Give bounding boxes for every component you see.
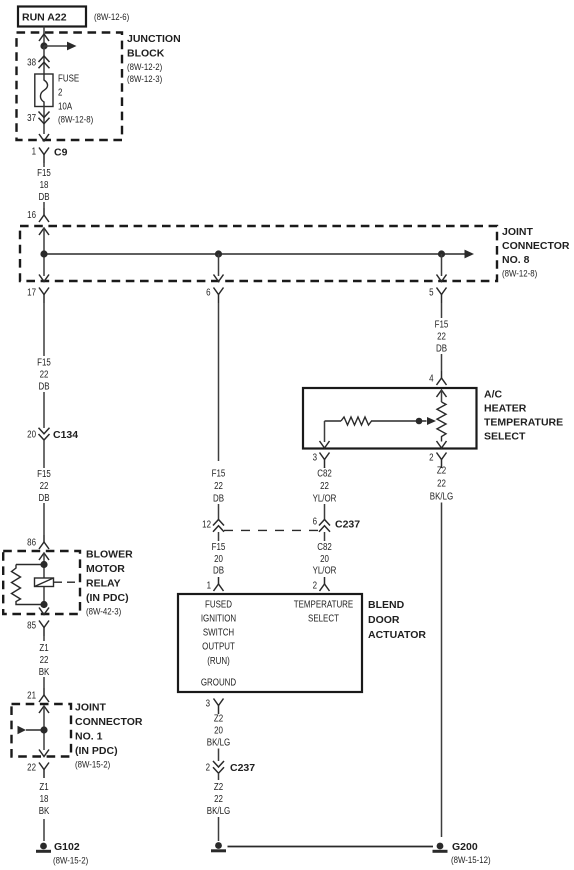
svg-text:BLOWER: BLOWER [86,549,133,561]
svg-text:2: 2 [429,452,433,463]
svg-text:6: 6 [313,516,317,527]
wire right leg [441,254,443,276]
blower motor relay dashed box [3,551,80,614]
arrow into joint connector no 1 [39,706,49,713]
wire Z2 22 BK/LG [218,773,220,780]
node: bus junction left [40,250,47,257]
svg-text:OUTPUT: OUTPUT [202,641,235,652]
svg-text:(8W-12-6): (8W-12-6) [94,11,129,22]
potentiometer resistor element [441,390,443,402]
svg-text:G200: G200 [452,841,478,853]
svg-text:BK: BK [39,666,50,677]
node: bus junction middle [215,250,222,257]
svg-text:C134: C134 [53,429,78,441]
svg-text:85: 85 [27,620,36,631]
relay contact [35,578,54,587]
svg-text:NO. 8: NO. 8 [502,254,530,266]
svg-text:22: 22 [40,369,49,380]
arrow into a/c box [437,390,447,397]
arrow into joint connector no 8 [39,228,49,235]
wiper wire to pin 3 [324,421,326,442]
svg-text:21: 21 [27,690,36,701]
dashed wire C237 link [224,529,319,531]
wire branch to other circuits [26,729,44,731]
svg-text:20: 20 [27,429,36,440]
svg-text:Z1: Z1 [39,642,48,653]
arrow out of junction block [39,134,49,141]
svg-text:F15: F15 [212,541,226,552]
svg-text:20: 20 [320,553,329,564]
svg-text:22: 22 [320,480,329,491]
svg-text:(8W-42-3): (8W-42-3) [86,606,121,617]
wire Z1 22 BK [43,636,45,641]
svg-text:MOTOR: MOTOR [86,563,125,575]
connector C237 pin 12 [213,520,224,526]
svg-text:10A: 10A [58,101,72,112]
svg-text:BK: BK [39,805,50,816]
wire below fuse [43,107,45,135]
svg-text:GROUND: GROUND [201,677,236,688]
relay coil branch [16,564,44,566]
svg-text:3: 3 [206,698,210,709]
wire to fuse [43,46,45,74]
svg-text:(RUN): (RUN) [207,655,230,666]
svg-text:2: 2 [313,580,317,591]
svg-text:(8W-12-2): (8W-12-2) [127,61,162,72]
svg-text:Z2: Z2 [214,781,223,792]
svg-text:YL/OR: YL/OR [313,493,337,504]
svg-text:ACTUATOR: ACTUATOR [368,629,426,641]
wire F15 20 DB [218,532,220,541]
svg-text:Z2: Z2 [214,713,223,724]
svg-text:(IN PDC): (IN PDC) [75,745,118,757]
svg-text:BK/LG: BK/LG [430,491,454,502]
node: bus junction right [438,250,445,257]
svg-text:CONNECTOR: CONNECTOR [75,716,143,728]
ground link wire [228,846,434,848]
svg-text:BLOCK: BLOCK [127,48,165,60]
svg-text:12: 12 [202,519,211,530]
wire inside joint connector no 1 [43,706,45,750]
relay main wire [43,553,45,608]
svg-text:18: 18 [40,179,49,190]
fuse 2 10A [35,74,53,107]
svg-text:F15: F15 [37,357,51,368]
svg-text:DB: DB [436,343,447,354]
svg-text:(8W-15-2): (8W-15-2) [75,759,110,770]
svg-text:2: 2 [206,762,210,773]
connector C237 pin 2 bottom [213,761,224,767]
svg-text:RUN A22: RUN A22 [22,12,67,24]
svg-text:Z2: Z2 [437,465,446,476]
svg-text:IGNITION: IGNITION [201,613,236,624]
svg-text:16: 16 [27,209,36,220]
svg-text:4: 4 [429,373,433,384]
svg-text:C82: C82 [317,541,332,552]
svg-text:TEMPERATURE: TEMPERATURE [484,417,563,429]
wire middle leg [218,254,220,276]
svg-text:JUNCTION: JUNCTION [127,33,181,45]
arrow out of relay [39,608,49,615]
arrow out of a/c box left [320,441,330,448]
svg-text:5: 5 [429,287,433,298]
ground G102 [40,843,47,850]
svg-text:22: 22 [27,762,36,773]
svg-text:FUSED: FUSED [205,599,232,610]
svg-text:22: 22 [214,793,223,804]
wire from RUN A22 into junction block [43,27,45,47]
svg-text:37: 37 [27,112,36,123]
svg-text:HEATER: HEATER [484,403,527,415]
svg-text:JOINT: JOINT [502,226,534,238]
svg-text:DB: DB [38,492,49,503]
svg-text:BLEND: BLEND [368,599,405,611]
arrow out of joint connector no 1 [39,750,49,757]
svg-text:SELECT: SELECT [484,431,526,443]
wire node 6 to C237 [218,303,220,461]
svg-text:(8W-12-8): (8W-12-8) [502,268,537,279]
svg-text:2: 2 [58,87,62,98]
svg-text:A/C: A/C [484,389,503,401]
node: relay top junction [40,561,47,568]
svg-text:22: 22 [40,480,49,491]
svg-text:F15: F15 [212,468,226,479]
connector chevrons pin 37 [39,112,50,118]
svg-text:(8W-12-3): (8W-12-3) [127,73,162,84]
svg-text:RELAY: RELAY [86,578,121,590]
svg-text:BK/LG: BK/LG [207,805,231,816]
svg-text:F15: F15 [37,468,51,479]
wire F15 22 DB upper [43,303,45,356]
joint connector no 1 dashed box [12,704,72,757]
bus wire joint connector no 8 [44,253,465,255]
node: junction dot [40,42,47,49]
svg-text:DB: DB [38,191,49,202]
wire branch to other circuits [44,45,68,47]
svg-text:38: 38 [27,57,36,68]
svg-text:22: 22 [437,331,446,342]
svg-text:SWITCH: SWITCH [203,627,234,638]
svg-text:C82: C82 [317,468,332,479]
arrow into junction block [39,34,49,41]
svg-text:F15: F15 [435,319,449,330]
wire C82 22 YL/OR [324,467,326,470]
joint connector no 8 dashed box [20,226,497,281]
svg-text:1: 1 [207,580,211,591]
arrow out of a/c box right [437,441,447,448]
svg-text:C9: C9 [54,147,68,159]
arrow out right pin 5 [437,275,447,282]
svg-text:17: 17 [27,287,36,298]
svg-text:DOOR: DOOR [368,614,400,626]
svg-text:DB: DB [213,565,224,576]
svg-text:DB: DB [38,381,49,392]
svg-text:JOINT: JOINT [75,702,107,714]
ground middle [215,842,222,849]
svg-text:F15: F15 [37,167,51,178]
svg-text:YL/OR: YL/OR [313,565,337,576]
svg-text:22: 22 [40,654,49,665]
svg-text:NO. 1: NO. 1 [75,731,103,743]
arrow out middle pin 6 [214,275,224,282]
svg-text:G102: G102 [54,841,80,853]
svg-text:20: 20 [214,553,223,564]
connector C237 pin 6 [319,520,330,526]
blend door actuator box [178,594,362,692]
svg-text:TEMPERATURE: TEMPERATURE [294,599,354,610]
svg-text:(IN PDC): (IN PDC) [86,592,129,604]
node: relay bottom junction [40,601,47,608]
svg-text:BK/LG: BK/LG [207,737,231,748]
svg-text:SELECT: SELECT [308,613,339,624]
wire F15 22 DB right [441,303,443,318]
svg-text:(8W-15-12): (8W-15-12) [451,854,491,865]
wire F15 22 DB lower [43,440,45,468]
svg-text:1: 1 [32,146,36,157]
potentiometer wiper [325,420,342,422]
junction block dashed box [17,33,123,141]
svg-text:22: 22 [214,480,223,491]
svg-text:20: 20 [214,725,223,736]
svg-text:6: 6 [206,287,210,298]
svg-text:C237: C237 [335,519,360,531]
svg-text:3: 3 [313,452,317,463]
node: joint connector 1 junction [40,726,47,733]
svg-text:C237: C237 [230,762,255,774]
svg-text:(8W-12-8): (8W-12-8) [58,114,93,125]
connector chevrons pin 38 [39,56,50,62]
connector C134 pin 20 [39,428,50,434]
svg-text:86: 86 [27,537,36,548]
svg-text:18: 18 [40,793,49,804]
a/c heater temperature select box [303,388,477,449]
svg-text:(8W-15-2): (8W-15-2) [53,855,88,866]
arrow into relay [39,553,49,560]
svg-text:DB: DB [213,493,224,504]
wire C82 20 YL/OR [324,532,326,541]
wire F15 18 DB [43,163,45,167]
arrow out left pin 17 [39,275,49,282]
svg-text:CONNECTOR: CONNECTOR [502,240,570,252]
svg-text:Z1: Z1 [39,781,48,792]
svg-text:22: 22 [437,478,446,489]
wire left leg inside joint connector [43,228,45,276]
power source RUN A22 [18,7,86,27]
svg-text:FUSE: FUSE [58,73,79,84]
ground G200 [437,843,444,850]
